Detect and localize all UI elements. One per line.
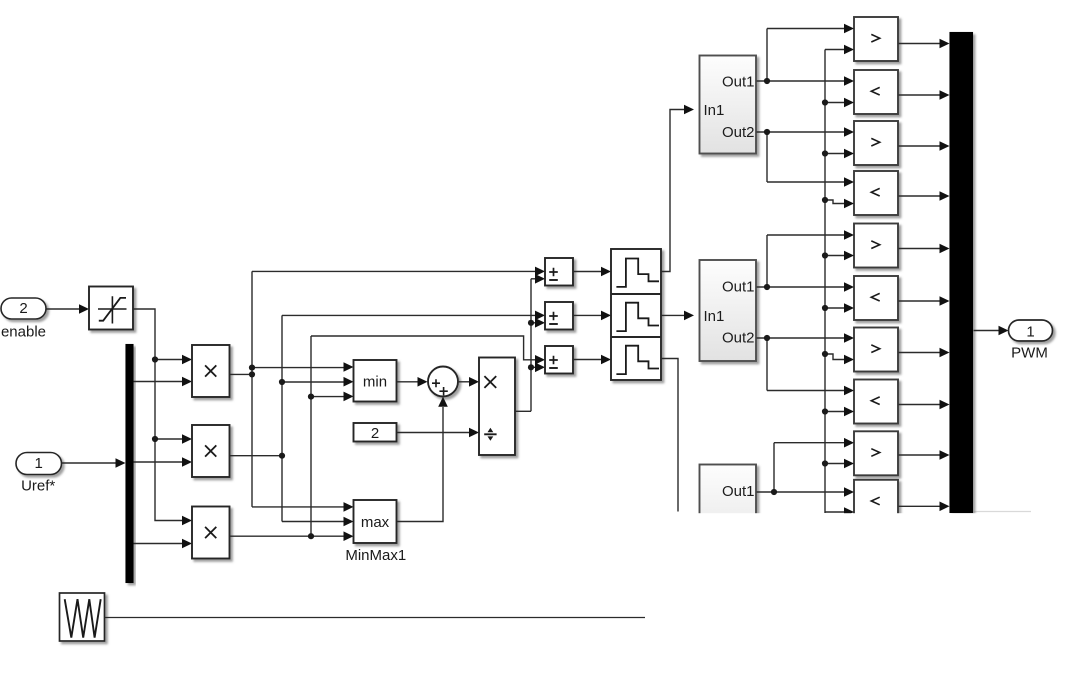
faint clipped edge line — [974, 511, 1032, 513]
wire relational 6 -> mux — [899, 300, 941, 302]
relational operator 3 (>) — [854, 121, 898, 165]
svg-text:In1: In1 — [704, 102, 725, 119]
wire relational 10 -> mux — [899, 505, 941, 507]
junction — [152, 356, 158, 362]
junction — [528, 364, 534, 370]
inport 2 (enable) — [1, 298, 46, 319]
inport 1 (Uref*) — [16, 453, 62, 475]
svg-text:max: max — [361, 514, 390, 531]
svg-text:1: 1 — [35, 455, 43, 472]
wire branch to product1 in1 — [155, 359, 183, 361]
wire demux -> product1 in2 — [134, 381, 183, 383]
wire product1 output net (phase a) — [230, 373, 252, 375]
svg-text:enable: enable — [1, 324, 46, 341]
svg-text:PWM: PWM — [1011, 345, 1048, 362]
relational operator 6 (<) — [854, 276, 898, 320]
demux bar — [126, 344, 134, 583]
svg-text:Out1: Out1 — [722, 74, 755, 91]
junction — [308, 533, 314, 539]
carrier tap — [825, 307, 845, 309]
subsystem 3 (gate logic c, clipped) — [700, 465, 757, 563]
junction — [764, 284, 770, 290]
svg-text:Out1: Out1 — [722, 279, 755, 296]
wire addsub2 -> stair2 — [574, 314, 603, 316]
divide block — [479, 358, 515, 456]
wire subsystem2 Out1 net — [757, 286, 845, 288]
wire relational 4 -> mux — [899, 195, 941, 197]
wire demux -> product2 in2 — [134, 461, 183, 463]
junction — [771, 489, 777, 495]
carrier tap — [825, 411, 845, 413]
wire max -> sum (bottom input) — [397, 407, 443, 522]
wire relational 5 -> mux — [899, 248, 941, 250]
wire Uref* -> demux — [62, 462, 116, 464]
product block 1 — [192, 345, 230, 397]
min block — [354, 360, 397, 402]
wire product3 output net (phase c) — [230, 535, 344, 537]
wire relational 2 -> mux — [899, 94, 941, 96]
junction — [249, 371, 255, 377]
relational operator 1 (>) — [854, 17, 898, 61]
junction — [764, 335, 770, 341]
product block 3 — [192, 507, 230, 559]
subsystem 2 (gate logic b) — [700, 260, 757, 361]
carrier tap op10 (clipped) — [825, 511, 845, 513]
relational operator 2 (<) — [854, 70, 898, 114]
junction — [528, 320, 534, 326]
sum block (circle) — [428, 367, 458, 397]
wire mux -> PWM outport — [974, 330, 1000, 332]
relational operator 9 (>) — [854, 431, 898, 475]
junction — [308, 394, 314, 400]
saturation icon — [98, 296, 127, 323]
wire triangle wave output (clipped) — [105, 617, 645, 619]
svg-text:2: 2 — [19, 300, 27, 317]
add-sub block 3 — [545, 346, 573, 374]
junction — [279, 379, 285, 385]
carrier distribution wire — [824, 50, 826, 514]
svg-text:2: 2 — [371, 425, 379, 442]
relational operator 8 (<) — [854, 380, 898, 424]
triangle wave generator block — [60, 593, 105, 641]
junction — [249, 365, 255, 371]
relational operator 7 (>) — [854, 328, 898, 372]
wire subsystem2 Out2 net — [757, 337, 845, 339]
wire subsystem1 Out2 net — [757, 131, 845, 133]
svg-text:Out1: Out1 — [722, 483, 755, 500]
relational operator 10 (<) — [854, 480, 898, 524]
wire subsystem1 Out1 net — [757, 80, 845, 82]
constant block (2) — [354, 423, 397, 442]
wire product2 output net (phase b) — [230, 455, 282, 457]
junction — [279, 453, 285, 459]
mux bar — [950, 32, 974, 513]
divide sign — [484, 433, 496, 435]
relational operator 5 (>) — [854, 224, 898, 268]
svg-text:Out2: Out2 — [722, 124, 755, 141]
saturation block — [89, 287, 133, 330]
product block 2 — [192, 425, 230, 477]
relational operator 4 (<) — [854, 171, 898, 215]
wire constant -> divide divisor — [397, 432, 470, 434]
stair icon — [616, 303, 659, 331]
wire sum -> divide — [458, 381, 470, 383]
carrier tap — [825, 102, 845, 104]
wire demux -> product3 in2 — [134, 543, 183, 545]
wire relational 8 -> mux — [899, 404, 941, 406]
svg-text:min: min — [363, 374, 387, 391]
outport 1 (PWM) — [1009, 320, 1053, 341]
carrier tap — [825, 463, 845, 465]
carrier tap with jog (op4) — [825, 200, 845, 204]
wire divide output -> carrier-offset net — [516, 410, 532, 412]
wire relational 1 -> mux — [899, 43, 941, 45]
carrier tap — [825, 153, 845, 155]
triangle wave icon — [65, 599, 101, 637]
junction — [764, 78, 770, 84]
wire relational 9 -> mux — [899, 454, 941, 456]
svg-text:Out2: Out2 — [722, 330, 755, 347]
wire relational 3 -> mux — [899, 145, 941, 147]
max block — [354, 500, 397, 543]
viewport clip edge — [688, 513, 1080, 686]
stair icon — [616, 259, 659, 287]
add-sub block 2 — [545, 302, 573, 330]
svg-text:Uref*: Uref* — [21, 478, 55, 495]
wire enable -> saturation — [47, 308, 81, 310]
wire addsub3 -> stair3 — [574, 359, 603, 361]
wire stair2 -> subsystem2 In1 — [662, 314, 686, 316]
wire stair3 -> subsystem3 In1 (clipped) — [662, 359, 679, 512]
junction — [764, 129, 770, 135]
svg-text:In1: In1 — [704, 308, 725, 325]
wire stair1 -> subsystem1 In1 — [662, 110, 686, 272]
wire min -> sum — [397, 381, 418, 383]
subsystem 1 (gate logic a) — [700, 56, 757, 154]
wire branch to product2 in1 — [155, 438, 183, 440]
svg-text:MinMax1: MinMax1 — [345, 547, 406, 564]
wire subsystem3 Out1 net — [757, 491, 845, 493]
carrier tap — [825, 255, 845, 257]
svg-text:1: 1 — [1026, 323, 1034, 340]
add-sub block 1 — [545, 258, 573, 286]
wire saturation -> product inputs (enable net) — [134, 309, 183, 521]
wire addsub1 -> stair1 — [574, 271, 603, 273]
stair generator stack — [611, 249, 661, 380]
wire relational 7 -> mux — [899, 352, 941, 354]
junction — [152, 436, 158, 442]
carrier tap with jog (op7) — [825, 354, 845, 360]
stair icon — [616, 346, 659, 374]
